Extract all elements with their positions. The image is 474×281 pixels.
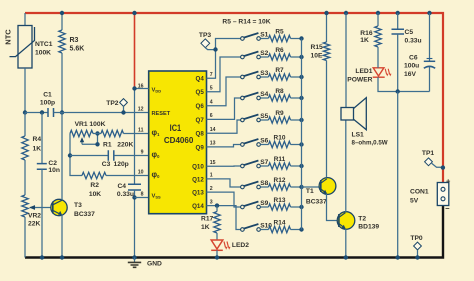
capacitor C2 — [41, 113, 43, 164]
svg-text:VSS: VSS — [152, 194, 162, 200]
ground symbol GND — [134, 258, 136, 263]
svg-text:5V: 5V — [410, 197, 419, 204]
wire Q7 to S4 — [207, 98, 241, 119]
svg-text:R14: R14 — [274, 220, 286, 227]
svg-text:3: 3 — [210, 199, 213, 205]
wire Vss pin8 — [135, 197, 149, 199]
transistor T1 — [319, 178, 336, 195]
junction Vss — [132, 195, 136, 199]
junction C2 tap — [40, 110, 44, 114]
svg-text:12: 12 — [138, 107, 144, 113]
svg-text:S2: S2 — [260, 50, 268, 57]
wire T2 collector to LS1 — [345, 120, 347, 212]
svg-text:CON1: CON1 — [410, 188, 429, 195]
svg-text:1K: 1K — [33, 145, 42, 152]
svg-text:R1: R1 — [103, 141, 112, 148]
switch S6 — [241, 143, 245, 147]
svg-text:NTC: NTC — [4, 29, 13, 45]
junction LED2 ground — [215, 255, 219, 259]
junction node ground — [396, 255, 400, 259]
junction R10 bus — [299, 142, 303, 146]
wire NTC bottom to node A — [24, 68, 26, 113]
wire T1 emitter to T2 base — [327, 194, 339, 221]
junction R11 bus — [299, 164, 303, 168]
svg-text:Q14: Q14 — [192, 203, 204, 210]
junction LS1 rail — [344, 11, 348, 15]
svg-text:Q5: Q5 — [196, 89, 205, 96]
svg-text:R6: R6 — [275, 47, 284, 54]
svg-text:TP3: TP3 — [199, 32, 212, 39]
svg-text:100p: 100p — [40, 100, 55, 107]
svg-text:LS1: LS1 — [352, 132, 365, 139]
potentiometer VR2 — [22, 195, 28, 217]
resistor R9 — [260, 119, 268, 121]
svg-text:BC337: BC337 — [74, 211, 95, 218]
wire NTC top to rail — [24, 13, 26, 26]
switch S4 — [241, 96, 245, 100]
svg-text:Q10: Q10 — [192, 164, 204, 171]
svg-text:S1: S1 — [260, 31, 268, 38]
junction R16 rail — [376, 11, 380, 15]
junction R3 bottom — [60, 110, 64, 114]
svg-text:13: 13 — [210, 141, 216, 147]
svg-text:220K: 220K — [117, 141, 133, 148]
connector CON1 — [437, 183, 449, 206]
capacitor C6 electrolytic — [429, 13, 431, 61]
resistor R2 — [82, 172, 106, 178]
junction R13 bus — [299, 205, 303, 209]
junction Vdd rail — [132, 11, 136, 15]
svg-text:S6: S6 — [260, 137, 268, 144]
svg-text:R12: R12 — [274, 177, 286, 184]
junction TP3 tap — [213, 47, 217, 51]
svg-text:Q6: Q6 — [196, 103, 205, 110]
transistor T3 — [51, 199, 67, 215]
junction R9 bus — [299, 118, 303, 122]
wire T2 emitter — [345, 229, 347, 258]
junction R7 bus — [299, 75, 303, 79]
switch S5 — [241, 118, 245, 122]
switch S8 — [241, 185, 245, 189]
wire Q13 to S9 — [207, 192, 241, 207]
svg-text:100K: 100K — [35, 50, 51, 57]
wire +5V red top rail — [25, 13, 443, 183]
svg-text:10: 10 — [138, 170, 144, 176]
svg-text:1: 1 — [210, 173, 213, 179]
svg-text:16V: 16V — [404, 71, 416, 78]
svg-text:22K: 22K — [28, 221, 40, 228]
svg-text:14: 14 — [210, 127, 216, 133]
svg-text:11: 11 — [138, 128, 144, 134]
junction C5 node — [396, 89, 400, 93]
svg-text:Q8: Q8 — [196, 131, 205, 138]
junction TP1 — [441, 165, 445, 169]
svg-text:5.6K: 5.6K — [70, 46, 85, 53]
capacitor C5 — [397, 13, 399, 29]
svg-text:TP0: TP0 — [410, 235, 423, 242]
svg-text:4: 4 — [210, 100, 213, 106]
svg-text:10E: 10E — [311, 53, 323, 60]
svg-text:C4: C4 — [117, 183, 126, 190]
wire Vdd red drop — [134, 13, 136, 89]
svg-text:IC1: IC1 — [170, 123, 182, 133]
junction C3 tap — [68, 153, 72, 157]
svg-text:S7: S7 — [260, 159, 268, 166]
junction C4 ground — [132, 255, 136, 259]
resistor R8 — [260, 97, 268, 99]
junction TP2 — [121, 110, 125, 114]
thermistor NTC1 — [18, 26, 32, 69]
junction R3 top rail — [60, 11, 64, 15]
svg-text:2: 2 — [210, 186, 213, 192]
svg-text:R3: R3 — [70, 37, 79, 44]
svg-text:100u: 100u — [404, 63, 419, 70]
svg-text:1K: 1K — [201, 224, 210, 231]
svg-text:R13: R13 — [274, 197, 286, 204]
wire R16 to LED1 — [377, 47, 379, 68]
svg-text:R10: R10 — [274, 135, 286, 142]
wire Q12 to S8 — [207, 179, 241, 187]
junction VR1 wiper — [95, 142, 99, 146]
junction R6 bus — [299, 55, 303, 59]
svg-text:S4: S4 — [260, 91, 268, 98]
svg-text:T1: T1 — [306, 188, 314, 195]
capacitor C3 — [70, 155, 108, 157]
switch S2 — [241, 55, 245, 59]
potentiometer VR1 — [70, 130, 93, 136]
wire Q14 to S10 — [207, 206, 241, 230]
svg-text:8–ohm,0.5W: 8–ohm,0.5W — [352, 139, 388, 146]
svg-text:C1: C1 — [43, 92, 52, 99]
wire Q10 to S7 — [207, 165, 241, 167]
svg-text:0.33u: 0.33u — [117, 191, 134, 198]
resistor R12 — [260, 186, 268, 188]
junction R15 rail — [324, 11, 328, 15]
wire resistor bus — [301, 39, 303, 230]
wire bus to T1 base — [302, 186, 321, 188]
wire VR2 wiper to T3 base — [35, 207, 53, 209]
LED LED1 — [373, 68, 384, 76]
svg-text:TP1: TP1 — [422, 150, 435, 157]
switch S3 — [241, 75, 245, 79]
svg-text:Q4: Q4 — [196, 76, 205, 83]
svg-text:R8: R8 — [275, 88, 284, 95]
switch S9 — [241, 205, 245, 209]
svg-text:BD139: BD139 — [358, 223, 379, 230]
resistor R4 — [22, 136, 28, 160]
test point TP0 — [414, 242, 422, 250]
svg-text:Q9: Q9 — [196, 144, 205, 151]
resistor R14 — [260, 229, 268, 231]
wire C5 node to ground — [397, 92, 399, 258]
resistor R16 — [377, 13, 379, 26]
wire Q5 to S2 — [207, 57, 241, 92]
junction Vdd pin16 — [132, 86, 136, 90]
svg-text:15: 15 — [210, 160, 216, 166]
svg-text:120p: 120p — [114, 161, 129, 168]
junction R12 bus — [299, 185, 303, 189]
svg-text:R11: R11 — [274, 156, 286, 163]
svg-text:GND: GND — [147, 260, 162, 267]
svg-text:C6: C6 — [409, 55, 418, 62]
svg-text:BC337: BC337 — [306, 198, 327, 205]
svg-text:1K: 1K — [360, 37, 369, 44]
wire T3 emitter — [61, 215, 63, 258]
wire Q4 to S1 — [207, 39, 241, 79]
junction R8 bus — [299, 96, 303, 100]
svg-text:Q12: Q12 — [192, 176, 204, 183]
svg-text:R17: R17 — [201, 216, 214, 223]
resistor R5 — [260, 38, 268, 40]
junction T2 emitter ground — [344, 255, 348, 259]
switch S7 — [241, 164, 245, 168]
switch S10 — [241, 228, 245, 232]
svg-text:8: 8 — [141, 192, 144, 198]
test point TP1 — [425, 158, 433, 166]
svg-text:R5: R5 — [275, 29, 284, 36]
resistor R11 — [260, 165, 268, 167]
svg-text:S9: S9 — [260, 200, 268, 207]
wire Q6 to S3 — [207, 77, 241, 106]
svg-text:Q13: Q13 — [192, 190, 204, 197]
svg-text:POWER: POWER — [347, 77, 372, 84]
svg-text:R15: R15 — [311, 44, 324, 51]
junction C2 ground — [40, 255, 44, 259]
wire Q8 to S5 — [207, 120, 241, 133]
junction R17 tap — [215, 203, 219, 207]
wire node B vertical — [70, 134, 82, 176]
svg-text:S8: S8 — [260, 180, 268, 187]
switch S1 — [241, 37, 245, 41]
svg-text:VR2: VR2 — [28, 213, 41, 220]
junction TP0 ground — [415, 255, 419, 259]
svg-text:CD4060: CD4060 — [164, 135, 194, 145]
svg-text:S3: S3 — [260, 70, 268, 77]
junction C5 rail — [396, 11, 400, 15]
svg-text:TP2: TP2 — [106, 100, 119, 107]
svg-text:VDD: VDD — [152, 88, 162, 94]
svg-text:R16: R16 — [360, 30, 373, 37]
resistor R15 — [326, 13, 328, 42]
resistor R17 — [216, 206, 218, 212]
wire T3 collector — [61, 113, 63, 201]
svg-text:VR1 100K: VR1 100K — [75, 121, 106, 128]
op-amp U1 IC1 CD4060 body — [149, 71, 207, 214]
resistor R1 — [93, 133, 101, 135]
resistor R13 — [260, 206, 268, 208]
svg-text:10K: 10K — [89, 191, 101, 198]
svg-text:NTC1: NTC1 — [35, 41, 53, 48]
node A junction — [23, 110, 27, 114]
svg-text:RESET: RESET — [152, 111, 171, 117]
svg-text:T2: T2 — [358, 215, 366, 222]
wire rail to LS1 — [345, 13, 347, 108]
svg-text:R7: R7 — [275, 67, 284, 74]
svg-text:0.33u: 0.33u — [405, 38, 422, 45]
transistor T2 — [337, 212, 355, 230]
svg-text:R2: R2 — [90, 182, 99, 189]
svg-text:T3: T3 — [74, 202, 82, 209]
resistor R3 — [61, 13, 63, 30]
svg-text:10n: 10n — [48, 167, 60, 174]
wire LED1 bottom node — [378, 77, 430, 91]
test point TP3 — [201, 39, 210, 48]
svg-text:5: 5 — [210, 86, 213, 92]
svg-text:−: − — [445, 204, 450, 213]
junction VR1-R1 — [95, 131, 99, 135]
svg-text:S5: S5 — [260, 113, 268, 120]
junction R14 bus — [299, 227, 303, 231]
svg-text:LED2: LED2 — [232, 242, 249, 249]
svg-text:R9: R9 — [275, 110, 284, 117]
svg-text:R5 – R14 = 10K: R5 – R14 = 10K — [222, 19, 270, 26]
LED LED2 — [211, 240, 223, 249]
svg-text:6: 6 — [210, 113, 213, 119]
junction T3 emitter ground — [60, 255, 64, 259]
svg-text:C3: C3 — [102, 161, 111, 168]
wire Q9 to S6 — [207, 145, 241, 147]
svg-text:C5: C5 — [405, 29, 414, 36]
wire ground black bottom rail — [25, 206, 443, 258]
svg-text:Q7: Q7 — [196, 117, 205, 124]
junction C6 rail — [427, 11, 431, 15]
capacitor C1 — [25, 112, 48, 114]
resistor R6 — [260, 56, 268, 58]
junction R5 bus — [299, 36, 303, 40]
svg-text:7: 7 — [210, 72, 213, 78]
svg-text:+: + — [446, 177, 451, 186]
svg-text:LED1: LED1 — [355, 68, 372, 75]
capacitor C4 — [134, 90, 136, 185]
svg-text:9: 9 — [141, 150, 144, 156]
test point TP2 — [120, 99, 128, 107]
speaker LS1 — [341, 108, 354, 121]
svg-text:R4: R4 — [33, 136, 42, 143]
resistor R10 — [260, 144, 268, 146]
resistor R7 — [260, 76, 268, 78]
